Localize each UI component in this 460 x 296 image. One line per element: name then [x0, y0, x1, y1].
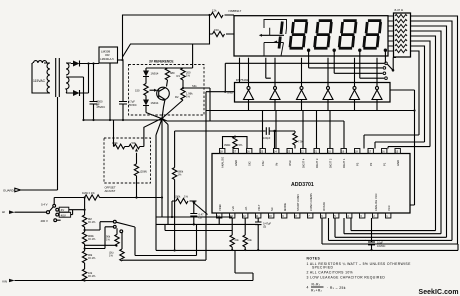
svg-text:FSU: FSU [261, 161, 265, 166]
svg-text:DS75492: DS75492 [236, 78, 249, 82]
svg-text:OR: OR [105, 53, 110, 57]
divider chain input wire [84, 198, 86, 216]
+5V branch into reference [123, 34, 210, 68]
node SIG tap wire [183, 88, 210, 121]
driver buffer A4 [323, 87, 333, 100]
resistor 9M [82, 215, 86, 232]
IC bottom pin labels [218, 192, 391, 211]
svg-text:HI: HI [2, 210, 5, 214]
svg-text:START CONV: START CONV [296, 194, 300, 211]
svg-text:(3): (3) [263, 225, 266, 229]
svg-text:12k: 12k [212, 9, 217, 13]
svg-text:9: 9 [282, 214, 284, 218]
svg-text:8-47 Ω: 8-47 Ω [395, 8, 403, 12]
resistor 90k 1% (column 2) [85, 228, 120, 246]
IC bottom pin boxes [217, 213, 391, 218]
svg-text:ADD3701: ADD3701 [291, 182, 314, 188]
transformer T1 primary [47, 63, 50, 93]
bus y110 [206, 90, 415, 205]
svg-text:40V: 40V [61, 213, 66, 217]
sign digit cell outline [264, 20, 287, 57]
GUARD shield wire [21, 97, 58, 190]
driver buffer A1 [244, 87, 254, 100]
svg-text:(1): (1) [199, 216, 202, 220]
svg-text:Vb: Vb [275, 162, 279, 166]
svg-text:7.5k: 7.5k [298, 140, 304, 144]
wiper arrow [136, 153, 138, 164]
capacitor C1 2500uF [90, 64, 98, 121]
rectifier output wire [89, 64, 100, 94]
regulator output wire [118, 59, 124, 61]
driver gnd wire [206, 91, 235, 93]
svg-text:1%: 1% [186, 74, 190, 78]
diode D4 1N914 [143, 98, 149, 113]
svg-text:GND: GND [396, 160, 400, 166]
svg-text:100pF: 100pF [263, 136, 271, 140]
svg-text:3 LOW LEAKAGE CAPACITOR REQUI: 3 LOW LEAKAGE CAPACITOR REQUIRED [307, 275, 386, 279]
svg-text:2 ALL CAPACITORS 10%: 2 ALL CAPACITORS 10% [307, 270, 354, 274]
resistor 90k [82, 251, 86, 269]
transformer T1 secondary [66, 63, 71, 93]
svg-text:DIGIT 2: DIGIT 2 [329, 158, 333, 168]
svg-text:VREF: VREF [218, 203, 222, 211]
digit 8 no.3 [339, 21, 357, 49]
range switch S1b contacts [113, 220, 116, 223]
range switch S1a pole [47, 211, 50, 214]
svg-text:DIGIT 3: DIGIT 3 [315, 158, 319, 168]
wire 1M to wiper node [102, 197, 162, 199]
reference +V rail [146, 67, 193, 69]
ladder box 8x47 ohm [394, 13, 411, 57]
IC top pin labels [221, 157, 401, 168]
svg-text:R1+R2: R1+R2 [311, 289, 323, 293]
svg-text:+VA: +VA [231, 206, 235, 211]
svg-text:ANALOG: ANALOG [221, 157, 225, 168]
staircase to IC top pins [364, 135, 430, 149]
emitter wire to star [162, 100, 165, 119]
diode D3 1N914 [143, 68, 149, 84]
svg-text:1: 1 [386, 214, 388, 218]
driver output wires down [249, 100, 378, 111]
svg-text:SPECIFIED: SPECIFIED [312, 266, 333, 270]
svg-text:50k: 50k [132, 141, 137, 145]
wire from 50k to star [144, 118, 162, 146]
capacitor 100pF at osc pin [266, 127, 274, 135]
switch contact 40V [56, 213, 59, 216]
resistor 24k pin12 [243, 218, 247, 250]
bus y224 [156, 218, 258, 231]
switch contact 400V [54, 219, 57, 222]
svg-text:8: 8 [295, 214, 297, 218]
transistor Q1 [157, 87, 170, 100]
offset adjust dashed box [104, 138, 151, 183]
svg-text:11: 11 [256, 214, 259, 218]
digit 8 no.1 [290, 21, 308, 49]
svg-text:3V REFERENCE: 3V REFERENCE [149, 60, 173, 64]
IC U5 ADD3701 body [212, 154, 410, 214]
svg-text:±0.1%: ±0.1% [88, 220, 96, 224]
digit 8 no.2 [314, 21, 332, 49]
junction node [273, 130, 275, 132]
resistor 12k (sign segment) [210, 12, 235, 17]
svg-text:3: 3 [360, 214, 362, 218]
wire [32, 63, 48, 93]
resistor 390 ohm at IC clock pins [223, 137, 248, 149]
svg-text:0.4 V: 0.4 V [41, 202, 48, 206]
capacitor 10uF 16VDC [368, 218, 375, 250]
decimal point 3 [358, 49, 361, 52]
bus y217 [156, 216, 232, 218]
switch contact 4V [56, 208, 59, 211]
svg-text:390Ω: 390Ω [224, 143, 230, 147]
svg-text:4: 4 [347, 214, 349, 218]
svg-text:P1: P1 [383, 162, 387, 166]
svg-text:12: 12 [243, 214, 246, 218]
svg-text:1N914: 1N914 [151, 101, 159, 105]
svg-text:1N914: 1N914 [151, 72, 159, 76]
svg-text:· R3 – 25k: · R3 – 25k [327, 286, 346, 290]
svg-text:5%: 5% [239, 143, 243, 147]
potentiometer 150 [144, 84, 148, 98]
svg-text:±0.1%: ±0.1% [88, 237, 96, 241]
svg-text:-VA: -VA [244, 207, 248, 211]
resistor 1M 1% [54, 195, 102, 200]
trimmer arrow [194, 203, 208, 215]
sign digit 1 segments [279, 22, 282, 49]
driver buffer A6 [372, 87, 382, 100]
dp switch S2 [385, 62, 388, 65]
diode D2 [71, 90, 89, 96]
resistor 680 [165, 68, 169, 87]
svg-text:VIN: VIN [2, 280, 7, 284]
GUARD input arrow [15, 188, 21, 192]
svg-text:150: 150 [214, 28, 219, 32]
svg-text:25VDC: 25VDC [97, 105, 106, 109]
svg-text:ADJUST: ADJUST [105, 189, 116, 193]
regulator ground pin wire [109, 63, 111, 120]
svg-text:R1: R1 [177, 74, 181, 78]
svg-text:1%: 1% [184, 195, 188, 199]
transformer center tap wire [66, 77, 84, 120]
driver buffer A2 [270, 87, 280, 100]
bus y131 [175, 130, 266, 132]
svg-text:4V: 4V [61, 208, 65, 212]
svg-text:2: 2 [373, 214, 375, 218]
bus y250 [156, 244, 458, 250]
resistor (20M) [134, 164, 138, 198]
segment wires from buffers up to display [249, 58, 378, 87]
wire display corner to driver [239, 58, 241, 83]
svg-text:±0.1%: ±0.1% [88, 256, 96, 260]
resistor 100k 1% gain [172, 198, 197, 217]
resistor 900k [82, 232, 86, 251]
svg-text:1MΩ ± 1%: 1MΩ ± 1% [82, 191, 95, 195]
IC top pin numbers [220, 150, 399, 154]
svg-text:P2: P2 [369, 162, 373, 166]
left long verticals [168, 92, 206, 260]
svg-text:(20M): (20M) [140, 170, 147, 174]
column 2 output wire [122, 259, 206, 261]
regulator U2 LM309 [99, 47, 118, 63]
svg-text:24k: 24k [235, 238, 240, 242]
svg-text:SeekIC.com: SeekIC.com [419, 289, 459, 296]
svg-text:100k: 100k [112, 141, 118, 145]
bus y121 VREF [167, 121, 344, 149]
transformer core [56, 58, 60, 97]
decimal point 4 [384, 49, 387, 52]
svg-text:115VAC: 115VAC [33, 79, 46, 83]
svg-text:100k: 100k [175, 195, 181, 199]
display U3 NSB5917 box [234, 16, 388, 56]
svg-text:24k: 24k [248, 238, 253, 242]
resistor R1 200 1% [181, 68, 185, 88]
driver buffer A5 [350, 87, 360, 100]
S1b lever wire [116, 222, 196, 255]
resistor 7.5k [275, 131, 298, 149]
svg-text:4: 4 [307, 285, 309, 289]
svg-text:R2: R2 [175, 95, 179, 99]
capacitor 0.47uF pin11 [255, 218, 262, 250]
svg-text:DIGIT 4: DIGIT 4 [302, 158, 306, 168]
svg-text:P3: P3 [356, 162, 360, 166]
segment fan wires [411, 16, 458, 244]
svg-text:±0.1%: ±0.1% [88, 274, 96, 278]
svg-text:1%: 1% [186, 95, 190, 99]
resistor (1k) 1% (column 2) [120, 233, 124, 261]
switch contact 0.4V [53, 204, 56, 207]
driver U4 DS75492 box [235, 83, 391, 103]
digit drive verticals to IC [263, 111, 331, 149]
svg-text:OSC: OSC [288, 160, 292, 166]
svg-text:SIG: SIG [248, 161, 252, 166]
svg-text:VFLT: VFLT [257, 204, 261, 211]
svg-text:150: 150 [135, 89, 140, 93]
fuse F1 [34, 61, 47, 63]
divider tap wires [85, 222, 114, 249]
resistor 24k pin13 [230, 218, 234, 250]
svg-text:NSB5917: NSB5917 [229, 9, 242, 13]
IC bottom pin numbers [217, 214, 388, 218]
decimal point 1 [307, 49, 310, 52]
svg-text:GND: GND [234, 160, 238, 166]
svg-text:R1R2: R1R2 [312, 283, 321, 287]
sign digit plus-minus bar [262, 34, 285, 36]
svg-text:7: 7 [308, 214, 310, 218]
diode D1 [71, 61, 89, 67]
digit 8 no.4 [363, 21, 381, 49]
dp harness wires [225, 50, 385, 91]
svg-text:GUARD: GUARD [3, 189, 15, 193]
svg-text:CONV COMPL: CONV COMPL [309, 192, 313, 211]
svg-text:25VDC: 25VDC [128, 103, 137, 107]
svg-text:MODE: MODE [283, 203, 287, 211]
svg-text:NOTES: NOTES [307, 257, 321, 261]
svg-text:6: 6 [321, 214, 323, 218]
svg-text:SC: SC [270, 207, 274, 211]
resistor 150 (sign segment) [210, 15, 235, 37]
ladder stubs from display [388, 16, 394, 51]
3V reference dashed box [129, 65, 205, 116]
svg-text:10: 10 [269, 214, 272, 218]
ground bus [84, 119, 162, 121]
capacitor C2 4.7uF [119, 60, 127, 120]
decimal point 2 [333, 49, 336, 52]
svg-text:LM340LA-5: LM340LA-5 [100, 57, 114, 61]
svg-text:ANALOG VCC: ANALOG VCC [374, 193, 378, 211]
resistor 680k 1% [172, 168, 176, 180]
svg-text:DIGIT 1: DIGIT 1 [342, 158, 346, 168]
svg-text:SIG: SIG [192, 84, 197, 88]
contact wires to divider [69, 210, 85, 215]
resistor 100k [114, 120, 130, 149]
+5V riser [123, 15, 210, 60]
potentiometer 50k [129, 144, 144, 149]
resistor R2 1.96k 1% [163, 88, 186, 118]
star ground node [161, 117, 164, 120]
svg-text:680: 680 [170, 71, 175, 75]
IC top pin boxes [220, 149, 401, 154]
ladder resistors [395, 14, 407, 52]
svg-text:5: 5 [334, 214, 336, 218]
svg-text:400 V: 400 V [41, 219, 48, 223]
resistor 10k [82, 269, 86, 281]
capacitor 0.47 [190, 203, 197, 224]
bottom loop wire [235, 250, 253, 281]
svg-text:OV/UN: OV/UN [322, 202, 326, 211]
driver buffer A3 [297, 87, 307, 100]
svg-text:VCC: VCC [387, 205, 391, 211]
bottom nest wires [322, 218, 458, 244]
